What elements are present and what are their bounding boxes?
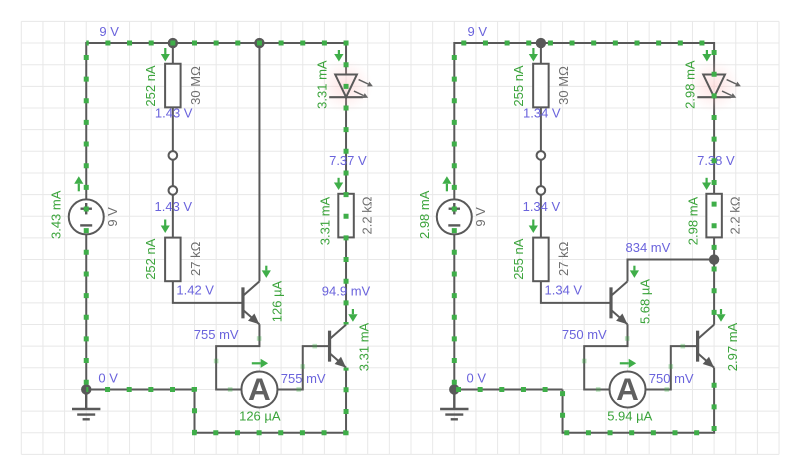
svg-text:1.34 V: 1.34 V [523,106,561,121]
LED current arrow (down) [338,50,340,54]
LED current arrow (down) [706,50,708,54]
wire: LED cathode to 2.2k resistor and down to Q2 collector [713,97,715,325]
svg-text:9 V: 9 V [105,207,120,227]
LED emission arrows [359,80,369,84]
svg-text:A: A [616,371,639,407]
wire: terminal to 27k, 27k to Q1 base [173,195,243,303]
svg-text:0 V: 0 V [98,370,118,385]
transistor Q2b (NPN) [696,331,699,362]
svg-text:27 kΩ: 27 kΩ [556,241,571,276]
current dots: top rail / LED / 2.2k / Q2 collector [86,43,346,324]
ground symbol [72,389,100,419]
wire: left rail / top rail / LED column (right circuit) [454,43,714,389]
Q2 collector current arrow (down) [352,309,354,314]
ammeter Ma circle [241,371,277,407]
transistor Q2a (NPN) [328,331,331,362]
svg-text:3.31 mA: 3.31 mA [315,60,330,109]
wire: Q1 emitter down / left / down to ammeter left terminal [216,324,259,389]
voltage source Vb 9V (circle with plus/minus) [437,199,472,234]
wire: ground rail [86,388,194,390]
svg-text:5.94 µA: 5.94 µA [607,408,652,423]
ground junction [449,384,459,394]
svg-text:834 mV: 834 mV [626,240,671,255]
current dots: left rail (source branch) [84,43,89,389]
svg-text:755 mV: 755 mV [194,327,239,342]
Q1 collector current arrow (down) [265,266,267,271]
resistor R3b 2.2 kOhm body [706,194,722,238]
voltage source Va 9V (circle with plus/minus) [69,199,104,234]
terminal node circle lower [537,186,546,195]
svg-text:1.34 V: 1.34 V [523,199,561,214]
svg-text:3.31 mA: 3.31 mA [317,196,332,245]
svg-text:126 µA: 126 µA [269,280,284,322]
junction: 30M branch at top rail [536,38,546,48]
wire: left rail / top rail / LED column (left circuit) [86,43,346,389]
wire: ammeter right terminal / riser / to Q2 base [646,346,698,389]
LED Db glow [687,59,741,113]
LED triangle [335,75,357,98]
svg-text:2.2 kΩ: 2.2 kΩ [359,196,374,234]
svg-text:27 kΩ: 27 kΩ [188,241,203,276]
svg-text:30 MΩ: 30 MΩ [556,66,571,105]
wire: between terminals [540,155,542,190]
current dots: top rail / LED / 2.2k / Q2 collector [454,43,714,324]
terminal node circle upper [537,151,546,160]
svg-text:252 nA: 252 nA [143,65,158,107]
Q1 collector current arrow (down) [633,266,635,271]
R1 current arrow (down) [532,48,534,54]
LED emission arrows [727,80,737,84]
current dots: Q2 emitter / bottom return / ground rail [86,368,346,433]
source current arrow (up) [78,184,80,192]
svg-text:755 mV: 755 mV [281,371,326,386]
junction: 834 mV node below 2.2k [709,254,719,264]
R2 current arrow (down) [532,220,534,226]
svg-text:9 V: 9 V [468,24,488,39]
svg-text:A: A [248,371,271,407]
svg-text:1.43 V: 1.43 V [155,106,193,121]
ammeter current arrow (right) [252,362,261,364]
svg-text:252 nA: 252 nA [143,238,158,280]
svg-text:750 mV: 750 mV [562,327,607,342]
wire: Q1 collector up to 834 mV node and across to LED column [628,260,715,282]
wire: 30M branch from top rail down to terminal [540,43,542,151]
svg-text:126 µA: 126 µA [239,408,281,423]
svg-text:2.98 mA: 2.98 mA [685,196,700,245]
svg-text:2.98 mA: 2.98 mA [417,190,432,239]
ground junction [81,384,91,394]
svg-text:2.97 mA: 2.97 mA [725,322,740,371]
ammeter Mb circle [610,371,646,407]
wire: ammeter right terminal / riser / to Q2 base [277,346,329,389]
svg-text:30 MΩ: 30 MΩ [188,66,203,105]
resistor R1b 30 MOhm body [533,64,549,108]
svg-text:2.98 mA: 2.98 mA [683,60,698,109]
svg-text:750 mV: 750 mV [649,371,694,386]
svg-text:7.37 V: 7.37 V [329,153,367,168]
wire: Q1 collector to top rail [258,43,260,281]
svg-text:0 V: 0 V [467,370,487,385]
svg-text:3.43 mA: 3.43 mA [49,190,64,239]
svg-text:255 nA: 255 nA [511,238,526,280]
svg-text:5.68 µA: 5.68 µA [637,279,652,324]
LED cathode bar [697,96,731,98]
current dots: Q2 emitter / bottom return / ground rail [454,368,714,433]
junction: 30M branch at top rail [168,38,178,48]
current dots: faint on ammeter branch [582,359,587,364]
resistor R1a 30 MOhm body [165,64,181,108]
R1 current arrow (down) [164,48,166,54]
junction: Q1 collector at top rail [254,38,264,48]
resistor R2b 27 kOhm body [533,238,549,282]
wire: LED cathode to 2.2k resistor and down to Q2 collector [345,97,347,325]
current dots: faint on ammeter branch [214,359,219,364]
LED triangle [703,75,725,98]
wire: bottom return - ground to Q2 emitter [195,368,347,433]
R3 current arrow (down) [705,178,707,183]
R3 current arrow (down) [338,178,340,183]
svg-text:3.31 mA: 3.31 mA [357,322,372,371]
resistor R2a 27 kOhm body [165,238,181,282]
resistor R3a 2.2 kOhm body [338,194,354,238]
ground symbol [440,389,468,419]
terminal node circle upper [169,151,178,160]
Q2 collector current arrow (down) [720,309,722,314]
wire: bottom return - ground to Q2 emitter [563,368,715,433]
LED cathode bar [329,96,363,98]
wire: between terminals [172,155,174,190]
wire: terminal to 27k, 27k to Q1 base [541,195,611,303]
svg-text:255 nA: 255 nA [511,65,526,107]
wire: ground rail [454,388,562,390]
svg-text:1.43 V: 1.43 V [155,199,193,214]
svg-text:1.42 V: 1.42 V [176,283,214,298]
transistor Q1a (NPN) [241,287,244,318]
ammeter current arrow (right) [620,362,629,364]
wire: Q1 emitter down / left / down to ammeter left terminal [584,324,627,389]
svg-text:9 V: 9 V [473,207,488,227]
wire: 30M branch from top rail down to terminal [172,43,174,151]
svg-text:94.9 mV: 94.9 mV [322,284,371,299]
transistor Q1b (NPN) [609,287,612,318]
svg-text:2.2 kΩ: 2.2 kΩ [727,196,742,234]
R2 current arrow (down) [164,220,166,226]
svg-text:1.34 V: 1.34 V [545,283,583,298]
terminal node circle lower [169,186,178,195]
current dots: left rail (source branch) [452,43,457,389]
LED Da glow [319,59,373,113]
source current arrow (up) [446,184,448,192]
svg-text:9 V: 9 V [99,24,119,39]
